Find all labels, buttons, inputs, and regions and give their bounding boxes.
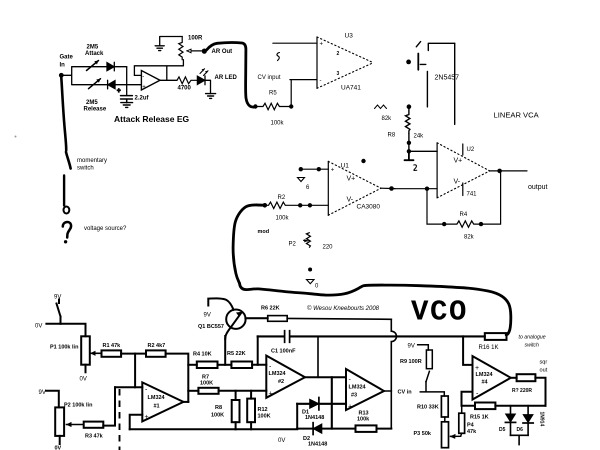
resistor R15 1K	[475, 403, 495, 410]
svg-text:-: -	[320, 78, 322, 84]
svg-text:2M5: 2M5	[86, 100, 98, 106]
svg-text:to analogue: to analogue	[519, 335, 546, 341]
svg-text:9V: 9V	[204, 313, 211, 319]
svg-text:100K: 100K	[211, 413, 224, 419]
wire junction right	[127, 67, 142, 95]
svg-text:1N914: 1N914	[539, 412, 545, 427]
svg-text:R8: R8	[388, 133, 396, 139]
wire U3 - input	[290, 80, 317, 105]
resistor R10 33K vertical	[441, 396, 448, 417]
svg-text:V+: V+	[347, 176, 356, 183]
resistor R2 100k	[265, 202, 329, 208]
resistor R9 100R vertical	[426, 350, 432, 369]
resistor R5 100k	[255, 103, 291, 109]
svg-text:1N4148: 1N4148	[308, 442, 327, 448]
svg-text:-: -	[142, 74, 144, 80]
wire output	[160, 79, 177, 81]
pin stub bottom	[462, 183, 464, 196]
svg-text:D5: D5	[499, 427, 506, 433]
svg-text:LM324: LM324	[476, 372, 494, 378]
squiggle mark R7	[375, 105, 387, 109]
svg-text:4700: 4700	[178, 86, 192, 92]
wire R15 line	[462, 405, 546, 407]
svg-text:100k: 100k	[276, 216, 290, 222]
diode D release	[108, 81, 115, 89]
pin stub top	[462, 144, 464, 155]
op-amp LM324 #1	[142, 382, 183, 421]
op-amp U3 UA741 (dotted)	[316, 37, 318, 88]
svg-text:2N5457: 2N5457	[435, 75, 460, 82]
wire output	[490, 170, 527, 172]
wire gate-in down to momentary switch	[61, 78, 66, 151]
resistor R12 100K vertical	[250, 391, 252, 399]
potentiometer P2 100k lin	[55, 407, 64, 436]
potentiometer 2M5 Release	[89, 79, 101, 89]
node AR Out	[202, 49, 207, 54]
svg-text:100R: 100R	[188, 36, 203, 42]
wire down to R4	[427, 189, 444, 224]
svg-text:LM324: LM324	[349, 385, 367, 391]
wire 9V to R9	[418, 345, 429, 350]
node	[407, 141, 411, 145]
resistor R5 22K	[231, 362, 252, 369]
node R4 right	[479, 222, 483, 226]
svg-text:R9 100R: R9 100R	[400, 359, 422, 365]
ground	[405, 151, 414, 160]
svg-text:+: +	[475, 365, 479, 372]
LED AR LED	[197, 76, 204, 84]
wire CV in	[420, 382, 444, 396]
svg-text:R6 22K: R6 22K	[261, 306, 280, 312]
momentary switch lever	[66, 152, 71, 169]
op-amp LM324 #2	[266, 356, 305, 398]
resistor R14 220R	[517, 374, 536, 381]
svg-text:LM324: LM324	[269, 371, 287, 377]
svg-text:9V: 9V	[39, 390, 46, 396]
svg-text:Attack Release EG: Attack Release EG	[114, 114, 190, 124]
wire cap right down to output	[317, 336, 319, 377]
svg-text:1N4148: 1N4148	[305, 415, 324, 421]
wire diode top	[297, 403, 346, 405]
svg-text:R4: R4	[460, 212, 468, 218]
wire output	[511, 377, 517, 379]
voltage source question mark	[63, 222, 71, 237]
node U3 out / gate	[406, 60, 411, 65]
diode D attack	[107, 63, 114, 71]
wire output LM324#3 to vertical	[384, 391, 391, 429]
wire junction down to inverting input	[134, 354, 136, 388]
resistor R16 1K (to analogue switch)	[485, 333, 507, 340]
svg-text:R2 4k7: R2 4k7	[148, 343, 166, 349]
svg-text:R? 220R: R? 220R	[512, 388, 532, 394]
svg-text:R5: R5	[269, 91, 277, 97]
svg-text:out: out	[540, 368, 548, 374]
svg-text:voltage source?: voltage source?	[84, 226, 127, 232]
wire + input step to 0V rail	[130, 415, 143, 430]
svg-text:+: +	[142, 85, 146, 91]
svg-text:741: 741	[467, 192, 478, 198]
transistor gate bar	[417, 54, 419, 70]
node R5 right	[289, 104, 293, 108]
svg-text:#4: #4	[482, 380, 489, 386]
node R5 left	[253, 104, 257, 108]
svg-text:R1 47k: R1 47k	[103, 343, 122, 349]
svg-text:R2: R2	[278, 195, 286, 201]
svg-text:R8: R8	[215, 405, 222, 411]
switch 9V lower	[46, 391, 59, 408]
svg-text:#3: #3	[351, 393, 357, 399]
resistor R2 4k7	[146, 350, 166, 356]
op-amp U1 CA3080 (dotted)	[327, 161, 329, 215]
resistor R13 100k	[356, 425, 377, 432]
ground	[155, 46, 164, 51]
svg-text:100K: 100K	[200, 381, 213, 387]
LED arrows	[200, 69, 208, 76]
potentiometer P1 100k lin	[81, 336, 90, 364]
svg-text:82k: 82k	[382, 116, 393, 122]
op-amp U2 741 (dotted)	[436, 143, 438, 198]
svg-text:Attack: Attack	[85, 51, 104, 57]
node	[298, 203, 302, 207]
svg-text:AR Out: AR Out	[212, 49, 233, 55]
potentiometer 100R	[179, 37, 183, 60]
svg-text:© Wesou Kneebourts 2008: © Wesou Kneebourts 2008	[307, 305, 380, 312]
node R8 top	[407, 104, 412, 109]
svg-text:mod: mod	[258, 229, 270, 235]
capacitor C1 100nF line	[258, 335, 485, 337]
svg-text:R3 47k: R3 47k	[85, 434, 104, 440]
potentiometer P3 50k	[442, 422, 449, 448]
op-amp EG U	[141, 71, 160, 91]
svg-text:82k: 82k	[464, 235, 475, 241]
svg-text:+: +	[331, 168, 335, 174]
node	[407, 149, 411, 153]
wire + input from top rail	[463, 336, 472, 365]
svg-text:#1: #1	[154, 404, 160, 410]
wire right vertical	[454, 43, 456, 124]
free node	[308, 268, 312, 272]
svg-text:0V: 0V	[35, 324, 42, 330]
capacitor 2.2uf	[121, 96, 133, 103]
svg-text:V+: V+	[454, 158, 463, 165]
wire top	[428, 43, 454, 50]
svg-text:R16 1K: R16 1K	[479, 345, 499, 351]
resistor R4 82k	[444, 221, 481, 227]
svg-text:P3 50k: P3 50k	[414, 431, 432, 437]
svg-text:R4 10K: R4 10K	[193, 352, 212, 358]
momentary switch contact circle	[64, 207, 70, 214]
svg-text:LINEAR VCA: LINEAR VCA	[494, 111, 540, 120]
wire	[121, 353, 146, 355]
potentiometer P4 47k	[459, 413, 465, 433]
potentiometer 2M5 Attack	[87, 61, 99, 71]
wire cap branch up	[257, 336, 259, 364]
hand mark 2	[414, 165, 417, 171]
node R4 left	[442, 222, 446, 226]
svg-text:220: 220	[323, 245, 334, 251]
svg-text:P4: P4	[467, 423, 475, 429]
svg-text:9V: 9V	[54, 295, 61, 301]
svg-text:UA741: UA741	[341, 85, 361, 92]
rail continues	[297, 428, 355, 430]
node	[299, 167, 303, 171]
svg-text:U2: U2	[467, 147, 475, 153]
svg-text:Gate: Gate	[60, 55, 74, 61]
svg-text:R10 33K: R10 33K	[417, 405, 439, 411]
svg-text:47k: 47k	[467, 429, 477, 435]
wire - input	[462, 392, 473, 406]
LED D6	[527, 406, 529, 415]
momentary switch actuator	[63, 176, 65, 206]
svg-text:9V: 9V	[408, 344, 415, 350]
svg-text:VCO: VCO	[411, 296, 468, 329]
svg-text:24k: 24k	[414, 134, 425, 140]
svg-text:C1 100nF: C1 100nF	[271, 349, 296, 355]
svg-text:100k: 100k	[357, 417, 370, 423]
op-amp LM324 #3	[346, 369, 384, 410]
rail 0V bottom	[130, 428, 298, 430]
svg-text:0V: 0V	[80, 377, 87, 383]
svg-text:V-: V-	[347, 197, 354, 204]
svg-text:100k: 100k	[271, 121, 285, 127]
wire 0V rail top	[46, 324, 85, 337]
node output	[497, 169, 502, 174]
svg-text:3: 3	[337, 71, 340, 77]
wire output	[183, 401, 188, 403]
wire source	[426, 71, 428, 107]
wire pot top to ground	[160, 37, 183, 46]
svg-text:R12: R12	[258, 407, 268, 413]
wire R3 up	[103, 387, 115, 425]
svg-text:momentary: momentary	[77, 158, 107, 164]
wire emitter down	[224, 336, 226, 365]
svg-text:Q1 BC557: Q1 BC557	[198, 324, 224, 330]
switch lever R9	[426, 371, 429, 381]
svg-text:2M5: 2M5	[87, 45, 99, 51]
svg-text:output: output	[528, 184, 548, 191]
svg-text:Release: Release	[84, 107, 107, 113]
hand squiggle mark	[277, 53, 280, 61]
svg-text:LM324: LM324	[148, 395, 166, 401]
wire feedback	[134, 66, 183, 81]
resistor R4 10K	[197, 362, 218, 369]
svg-text:In: In	[60, 63, 66, 69]
svg-text:2.2uf: 2.2uf	[135, 96, 150, 102]
svg-text:sqr: sqr	[540, 360, 548, 366]
wire	[61, 67, 107, 85]
svg-text:2: 2	[337, 51, 340, 57]
stray ink speck	[15, 136, 17, 138]
diode D1 1N4148	[310, 400, 319, 408]
wire pot bottom to feedback	[182, 60, 184, 66]
svg-text:V-: V-	[454, 179, 461, 186]
resistor R7 100K	[188, 390, 198, 392]
svg-text:+: +	[269, 391, 273, 398]
VCO bubble outline	[240, 283, 511, 335]
svg-text:CV input: CV input	[258, 75, 281, 81]
ground	[206, 94, 216, 99]
node	[317, 167, 321, 171]
svg-text:#2: #2	[278, 379, 284, 385]
resistor R8 100K vertical	[235, 391, 237, 400]
resistor R6 22K line (base)	[245, 318, 391, 319]
svg-text:D6: D6	[517, 427, 524, 433]
wire down to diode loop	[331, 377, 333, 428]
wire LED common	[511, 435, 529, 444]
free node above	[361, 159, 365, 163]
svg-text:CV in: CV in	[398, 390, 413, 396]
svg-text:R15 1K: R15 1K	[470, 415, 489, 421]
hand ground mark 6	[298, 178, 305, 182]
hand ground mark 0	[307, 280, 315, 284]
wire R2 left to VCO bubble	[233, 205, 262, 283]
potentiometer P2 220	[306, 233, 310, 248]
resistor R1 47k	[102, 350, 122, 356]
svg-text:100K: 100K	[258, 414, 271, 420]
svg-text:AR LED: AR LED	[215, 75, 238, 81]
node	[389, 186, 394, 191]
wire to U2	[409, 150, 437, 152]
wire U3 + input	[273, 42, 317, 44]
svg-text:P1 100k lin: P1 100k lin	[50, 345, 79, 351]
svg-text:R5 22K: R5 22K	[227, 351, 246, 357]
svg-text:0V: 0V	[55, 446, 62, 450]
svg-text:U1: U1	[341, 163, 350, 170]
svg-text:switch: switch	[77, 166, 94, 172]
op-amp LM324 #4	[473, 356, 511, 399]
svg-text:CA3080: CA3080	[357, 204, 381, 211]
dashed separator line	[119, 389, 121, 450]
switch 9V top left	[57, 300, 61, 324]
wire U2 - input from CA3080 out	[395, 188, 437, 190]
ground	[121, 103, 133, 108]
wire output LM324#2	[305, 376, 346, 378]
node R2 left	[263, 203, 268, 208]
drain tick	[416, 42, 420, 47]
svg-text:U3: U3	[345, 33, 354, 40]
wire R4 left	[188, 364, 197, 366]
node	[308, 203, 312, 207]
resistor R8 24k vertical	[406, 109, 410, 134]
gate stub	[420, 63, 426, 65]
wire AR Out to R5 (thick hand drawn)	[207, 43, 254, 107]
wire R2 to output node vertical	[166, 354, 189, 402]
svg-text:+: +	[117, 89, 121, 95]
node	[425, 187, 429, 191]
svg-text:+: +	[348, 404, 352, 411]
svg-text:0V: 0V	[278, 438, 285, 444]
wire hop over C1 line	[391, 319, 396, 391]
diode D2 1N4148	[314, 424, 322, 433]
wire CA3080 output	[381, 187, 395, 189]
svg-text:+: +	[320, 42, 324, 48]
node Gate In	[59, 73, 64, 78]
wire R4 right up to output	[481, 171, 501, 224]
diode loop left	[296, 404, 298, 429]
svg-text:P2 100k lin: P2 100k lin	[64, 403, 93, 409]
transistor Q1 BC557	[226, 310, 245, 329]
svg-text:P2: P2	[289, 242, 297, 248]
resistor 4700	[177, 77, 197, 84]
svg-text:+: +	[145, 414, 149, 421]
LED D5	[510, 406, 512, 414]
resistor R3 47k	[84, 422, 104, 428]
wire - input	[115, 386, 142, 388]
wire + input	[301, 168, 329, 170]
svg-text:switch: switch	[525, 343, 540, 349]
